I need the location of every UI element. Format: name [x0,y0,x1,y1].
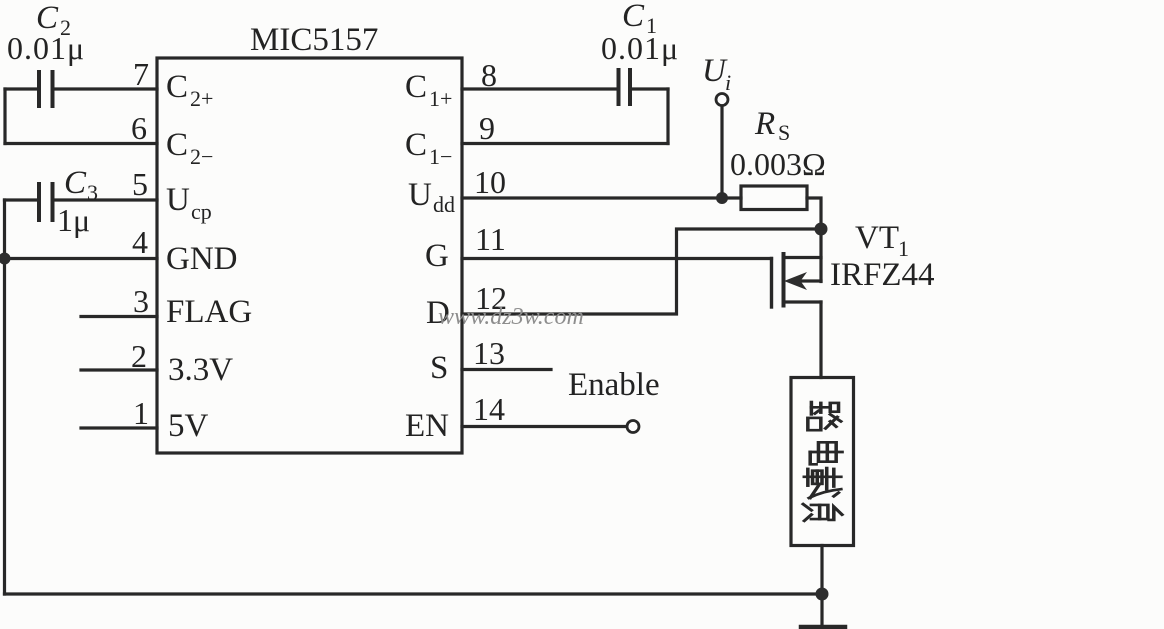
wire pin6 [5,142,157,145]
op-amp U1 MIC5157 IC body [157,58,462,453]
wire resistor to drain corner [807,198,821,229]
wire pin5 C3 right plate to IC [55,198,158,201]
wire bottom ground rail [5,592,823,595]
svg-text:0.01μ: 0.01μ [601,30,679,66]
label load text 路 (rotated) [808,402,841,430]
svg-text:C: C [166,69,188,105]
ground symbol top bar [801,625,845,629]
svg-text:2: 2 [131,338,147,374]
transistor Q1 VT1 gate bar [770,259,773,308]
wire pin2 stub [81,368,157,371]
wire pin4 GND [5,257,158,260]
svg-text:IRFZ44: IRFZ44 [830,257,935,293]
svg-text:C: C [405,127,427,163]
wire load to bottom junction [820,546,823,626]
node junction dot bottom rail [816,588,829,601]
load box 负载电路 [791,378,854,546]
wire C1 right plate to right loop [632,87,668,90]
svg-text:13: 13 [473,335,505,371]
capacitor C1 [619,70,631,104]
svg-text:S: S [778,120,790,145]
svg-text:C: C [622,0,645,34]
svg-text:C: C [64,165,87,201]
capacitor C3 [39,184,53,220]
wire pin11 G to gate [462,257,772,260]
transistor Q1 VT1 body arrow head [784,272,807,290]
svg-text:www.dz3w.com: www.dz3w.com [438,304,584,330]
svg-text:2−: 2− [190,144,213,169]
svg-text:i: i [725,70,731,95]
svg-text:9: 9 [479,110,495,146]
svg-text:FLAG: FLAG [166,294,252,330]
wire VT1 source to load [819,302,822,378]
svg-text:5V: 5V [168,408,209,444]
node Enable terminal circle [627,421,639,433]
transistor Q1 VT1 source branch [784,300,822,303]
wire pin10 Udd to resistor [462,196,741,199]
svg-text:VT: VT [855,220,899,256]
svg-text:cp: cp [191,199,212,224]
svg-text:U: U [408,177,432,213]
svg-text:5: 5 [132,166,148,202]
svg-text:1: 1 [133,395,149,431]
svg-text:0.01μ: 0.01μ [7,30,85,66]
wire pin9 [462,142,668,145]
transistor Q1 VT1 body branch with arrow [798,279,821,282]
node junction dot drain [815,223,828,236]
svg-text:1+: 1+ [429,86,452,111]
label load text 电 (rotated) [810,442,842,464]
svg-text:R: R [754,106,775,142]
svg-text:2+: 2+ [190,86,213,111]
wire pin7 C2 right plate to IC [55,87,158,90]
svg-text:EN: EN [405,408,449,444]
node junction dot GND rail [0,253,11,265]
svg-text:U: U [166,182,190,218]
svg-text:11: 11 [475,221,506,257]
transistor Q1 VT1 drain lead [819,229,822,282]
svg-text:0.003Ω: 0.003Ω [730,146,826,182]
svg-text:6: 6 [131,110,147,146]
svg-text:3.3V: 3.3V [168,352,233,388]
resistor RS body [741,186,807,210]
svg-text:S: S [430,350,448,386]
svg-text:GND: GND [166,241,238,277]
wire pin14 EN to Enable terminal [462,425,627,428]
label load text 载 (rotated) [804,468,841,498]
wire left ground rail vertical [3,200,6,594]
wire C1 loop right vertical [666,89,669,144]
capacitor C2 [39,72,53,106]
svg-text:dd: dd [433,192,455,217]
wire C3 left plate to left rail [5,198,38,201]
svg-text:MIC5157: MIC5157 [250,22,378,58]
wire pin3 stub [81,315,157,318]
wire pin1 stub [81,426,157,429]
node junction dot Ui / Udd / RS [716,192,728,204]
wire pin8 IC to C1 left plate [462,87,616,90]
svg-text:C: C [166,127,188,163]
node Ui terminal circle [716,94,728,106]
svg-text:C: C [405,69,427,105]
transistor Q1 VT1 drain branch [784,256,822,259]
wire pin13 stub [462,368,551,371]
svg-text:10: 10 [474,164,506,200]
svg-text:4: 4 [132,224,148,260]
svg-text:G: G [425,238,449,274]
svg-text:14: 14 [473,391,505,427]
svg-text:7: 7 [133,56,149,92]
svg-text:8: 8 [481,57,497,93]
label load text 负 (rotated) [803,504,842,521]
wire Ui terminal drop [720,106,723,199]
wire C2 left plate to left rail [5,87,37,90]
svg-text:3: 3 [133,283,149,319]
svg-text:1−: 1− [429,144,452,169]
wire pin12 D up and over to drain [462,229,821,314]
svg-text:1μ: 1μ [57,202,90,238]
svg-text:Enable: Enable [568,367,660,403]
transistor Q1 VT1 channel bar [782,254,786,306]
wire C2 loop left vertical [3,89,6,144]
